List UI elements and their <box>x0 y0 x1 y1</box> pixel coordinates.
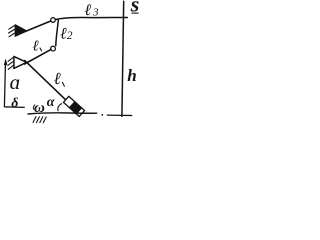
label l1 (upper arm) <box>32 39 41 55</box>
hatching of support O2 <box>8 58 13 70</box>
label l2 <box>60 26 73 43</box>
label a (distance) <box>10 70 21 94</box>
svg-text:ℓ: ℓ <box>32 39 38 55</box>
link l2 (short vertical link between joints A and B) <box>56 20 59 46</box>
angle arc alpha <box>58 104 62 111</box>
svg-text:s: s <box>130 0 140 16</box>
joint B (revolute, circle) <box>51 46 56 51</box>
svg-text:h: h <box>127 66 136 85</box>
hatching of ground <box>33 117 46 123</box>
joint A (revolute, circle) <box>51 18 56 23</box>
svg-text:ɑ: ɑ <box>10 70 21 94</box>
dimension line a (left, vertical with arrow) <box>4 59 24 107</box>
svg-text:α: α <box>47 95 55 110</box>
label alpha (crank angle) <box>47 95 55 110</box>
label h <box>127 66 136 85</box>
crank block (solid) inside slider <box>69 102 81 114</box>
svg-text:3: 3 <box>92 7 99 19</box>
svg-text:ω: ω <box>34 100 45 116</box>
ground guide line (solid, through slider) <box>28 113 97 114</box>
label s (underlined) <box>130 0 140 16</box>
support O1 (fixed pin, top-left) <box>15 25 27 36</box>
centerline (dash-dot to the right) <box>101 114 131 116</box>
svg-text:2: 2 <box>67 30 73 42</box>
support O2 (fixed pin, middle-left) <box>14 56 27 68</box>
rod l1 (long rod from O2 down to slider) <box>25 61 70 104</box>
link l1 (upper arm O2 to joint B) <box>25 49 51 64</box>
svg-text:ℓ: ℓ <box>54 69 61 88</box>
vertical guide / dimension line (right, for s and h) <box>122 1 124 116</box>
svg-text:δ: δ <box>11 96 18 111</box>
label l3 <box>84 2 99 19</box>
label l1 (rod) <box>54 69 65 88</box>
label b (distance, Cyrillic be / delta shape) <box>11 96 18 111</box>
slider block (outlined, tilted along rod) <box>63 96 84 116</box>
hatching of support O1 <box>9 26 15 37</box>
label omega (angular velocity) <box>33 100 45 116</box>
svg-text:ℓ: ℓ <box>84 2 91 19</box>
link l3 (horizontal bar to the right guide) <box>55 17 127 19</box>
link from O1 to joint A <box>26 21 52 32</box>
